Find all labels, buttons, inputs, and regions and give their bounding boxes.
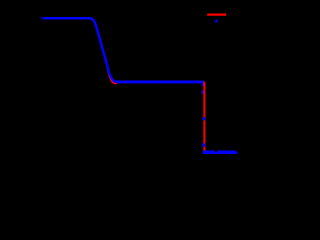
blue bottom line upper band dim segment in gap	[215, 150, 218, 152]
blue marker on drop y=145.1	[202, 143, 205, 146]
legend red line sample	[207, 13, 226, 15]
blue bottom line upper band segment 1	[204, 150, 215, 152]
legend blue star marker	[215, 20, 218, 23]
blue curve (marker series: top plateau, sigmoid descent, middle plateau)	[43, 18, 204, 82]
blue bottom line upper band segment 2	[217, 150, 236, 152]
red curve (line series: sigmoid, plateau, vertical drop, bottom level)	[43, 18, 204, 151]
blue end marker (237.2,152.7)	[236, 152, 238, 154]
blue start dash	[40, 17, 43, 20]
blue marker on drop y=92.2 under red	[202, 91, 205, 94]
blue middle plateau thickening overlay	[117, 80, 203, 83]
blue marker at top of drop (203.4,84.8) under red	[202, 83, 205, 86]
blue marker on drop y=118.8	[202, 117, 205, 120]
blue bottom line lower marker band	[204, 152, 236, 154]
blue marker at bottom corner (204.1,152.3)	[203, 151, 206, 154]
